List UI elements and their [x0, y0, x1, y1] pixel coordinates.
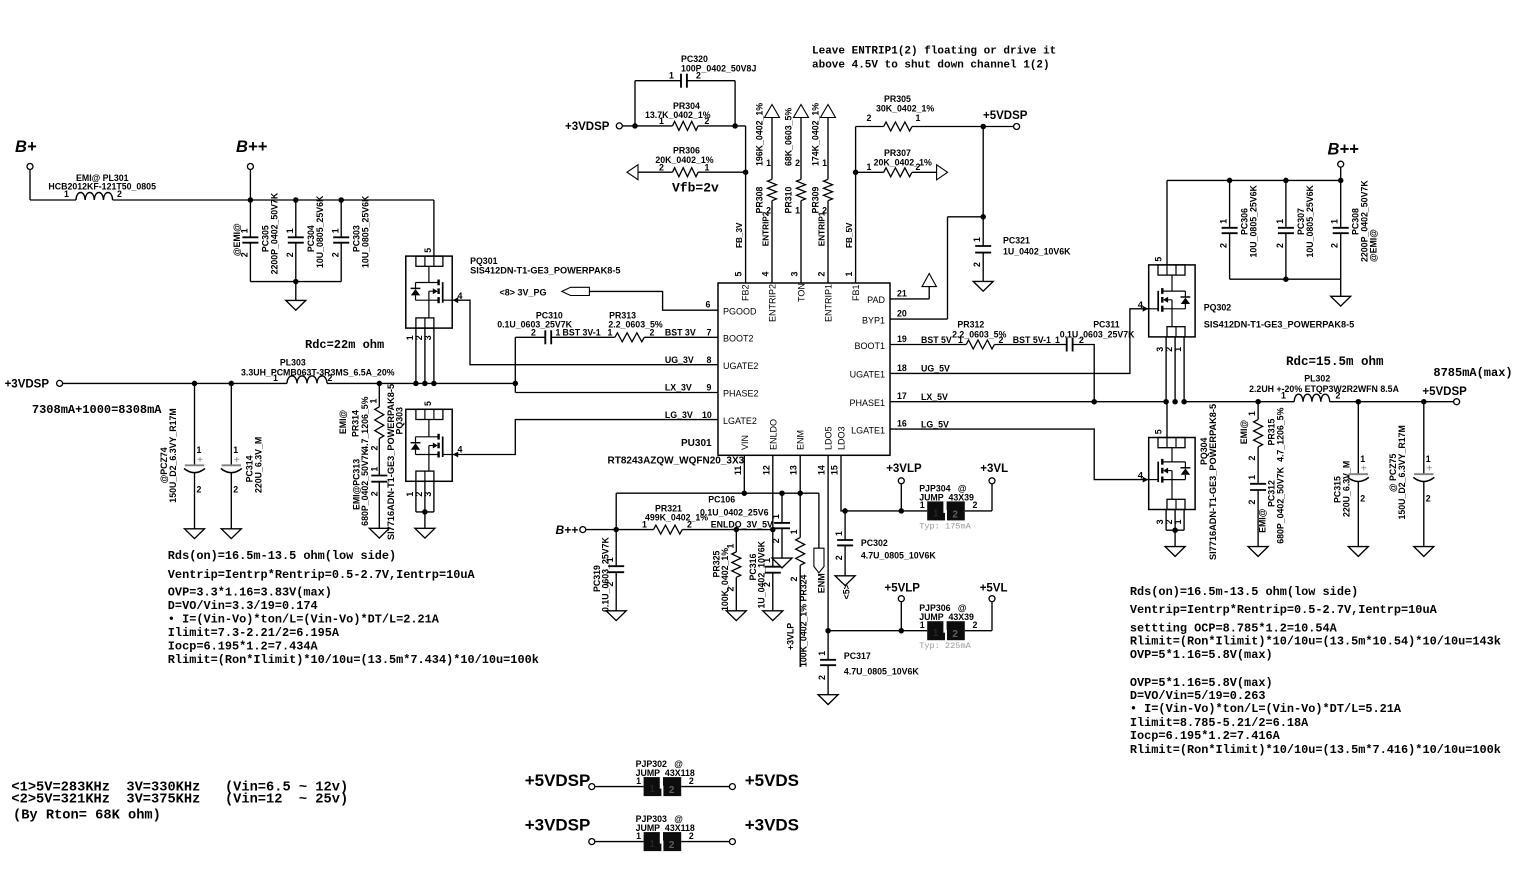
svg-text:680P_0402_50V7K: 680P_0402_50V7K	[360, 448, 370, 525]
svg-text:PGOOD: PGOOD	[723, 307, 757, 317]
wire LG_3V	[452, 420, 718, 455]
svg-text:12: 12	[761, 465, 771, 475]
svg-text:2: 2	[330, 252, 340, 257]
svg-text:+3VDSP: +3VDSP	[565, 121, 610, 133]
svg-text:2: 2	[1330, 243, 1340, 248]
capacitor PC319	[615, 530, 617, 567]
svg-text:2: 2	[696, 70, 701, 80]
wire bottom rail	[1230, 278, 1341, 280]
svg-text:LGATE1: LGATE1	[851, 425, 885, 435]
svg-text:2: 2	[669, 785, 675, 796]
svg-text:4: 4	[761, 272, 771, 277]
svg-text:4: 4	[458, 445, 463, 455]
svg-text:1U_0402_10V6K: 1U_0402_10V6K	[1003, 247, 1071, 257]
svg-text:2: 2	[369, 446, 379, 451]
wire PAD / arrow	[890, 298, 929, 300]
capacitor PC316	[772, 530, 774, 567]
svg-text:Ventrip=Ientrp*Rentrip=0.5-2.7: Ventrip=Ientrp*Rentrip=0.5-2.7V,Ientrp=1…	[1130, 603, 1438, 617]
svg-text:2: 2	[817, 675, 827, 680]
svg-text:1: 1	[725, 544, 735, 549]
svg-text:2: 2	[705, 116, 710, 126]
svg-text:ENTRIP1: ENTRIP1	[818, 211, 827, 246]
wire LX rail right	[1184, 401, 1294, 403]
svg-text:ENM: ENM	[796, 430, 806, 450]
svg-text:499K_0402_1%: 499K_0402_1%	[645, 513, 708, 523]
svg-text:1: 1	[649, 839, 655, 850]
svg-text:RT8243AZQW_WQFN20_3X3: RT8243AZQW_WQFN20_3X3	[608, 456, 745, 467]
svg-text:<8> 3V_PG: <8> 3V_PG	[500, 287, 547, 297]
svg-text:2: 2	[369, 491, 379, 496]
svg-text:PC321: PC321	[1003, 236, 1030, 246]
svg-text:+5VDSP: +5VDSP	[1422, 386, 1467, 398]
svg-text:Rds(on)=16.5m-13.5 ohm(low sid: Rds(on)=16.5m-13.5 ohm(low side)	[168, 549, 396, 563]
svg-text:B++: B++	[236, 138, 268, 156]
svg-text:1: 1	[933, 508, 939, 519]
svg-text:4.7_1206_5%: 4.7_1206_5%	[1276, 407, 1286, 461]
svg-text:PC106: PC106	[708, 495, 735, 505]
wire LX_3V	[515, 392, 718, 394]
svg-text:BOOT2: BOOT2	[723, 334, 754, 344]
svg-text:LDO5: LDO5	[824, 426, 834, 450]
svg-text:2: 2	[1219, 243, 1229, 248]
capacitor PC314	[229, 381, 235, 387]
svg-text:JUMP 43X118: JUMP 43X118	[636, 768, 695, 778]
wire	[63, 382, 287, 384]
capacitor PCZ75	[1421, 399, 1427, 405]
svg-text:15: 15	[830, 465, 840, 475]
svg-text:20K_0402_1%: 20K_0402_1%	[874, 157, 932, 167]
resistor PR307	[856, 171, 884, 173]
svg-text:BST 3V-1: BST 3V-1	[563, 328, 601, 338]
wire	[623, 125, 673, 127]
svg-text:OVP=3.3*1.16=3.83V(max): OVP=3.3*1.16=3.83V(max)	[168, 586, 332, 600]
svg-text:68K_0603_5%: 68K_0603_5%	[784, 108, 794, 166]
svg-text:10U_0805_25V6K: 10U_0805_25V6K	[360, 195, 370, 268]
wire LDO3 pin 15 / +3VLP line	[841, 455, 927, 511]
svg-text:1: 1	[933, 628, 939, 639]
svg-text:1: 1	[795, 206, 800, 216]
resistor PR306	[627, 165, 638, 180]
svg-text:4: 4	[1138, 300, 1144, 311]
svg-text:above 4.5V to shut down channe: above 4.5V to shut down channel 1(2)	[812, 60, 1050, 72]
svg-text:1: 1	[659, 116, 664, 126]
transistor PQ301	[406, 256, 452, 328]
svg-text:2.2UH +-20% ETQP3W2R2WFN 8.5A: 2.2UH +-20% ETQP3W2R2WFN 8.5A	[1249, 384, 1399, 394]
svg-text:0.1U_0603_25V7K: 0.1U_0603_25V7K	[601, 537, 611, 612]
svg-text:2: 2	[1079, 335, 1084, 345]
capacitor PC308	[1340, 180, 1342, 227]
svg-text:D=VO/Vin=3.3/19=0.174: D=VO/Vin=3.3/19=0.174	[168, 599, 318, 613]
wire	[595, 841, 643, 843]
svg-text:2: 2	[1336, 391, 1341, 401]
svg-text:4.7U_0805_10V6K: 4.7U_0805_10V6K	[844, 667, 919, 677]
svg-text:1: 1	[705, 162, 710, 172]
wire	[1165, 510, 1167, 531]
wire LG_5V	[890, 429, 1149, 480]
resistor PR309 / pin ENTRIP1 riser	[821, 105, 836, 118]
svg-text:1: 1	[822, 158, 827, 168]
svg-text:100P_0402_50V8J: 100P_0402_50V8J	[681, 64, 756, 74]
svg-text:SIS412DN-T1-GE3_POWERPAK8-5: SIS412DN-T1-GE3_POWERPAK8-5	[1204, 320, 1354, 330]
ground	[973, 281, 993, 291]
ground net 5	[835, 576, 855, 586]
capacitor PC302	[844, 511, 846, 540]
capacitor PC306	[1229, 180, 1231, 227]
svg-text:PL302: PL302	[1304, 374, 1330, 384]
svg-text:Rlimit=(Ron*Ilimit)*10/10u=(13: Rlimit=(Ron*Ilimit)*10/10u=(13.5m*7.434)…	[168, 653, 539, 667]
svg-text:<2>5V=321KHz 3V=375KHz (Vin: <2>5V=321KHz 3V=375KHz (Vin=12 ~ 25v)	[11, 793, 348, 808]
svg-text:2: 2	[117, 189, 122, 199]
svg-text:2: 2	[233, 485, 238, 495]
ground	[295, 282, 297, 301]
wire	[965, 630, 992, 632]
svg-text:1: 1	[197, 445, 202, 455]
svg-text:+3VLP: +3VLP	[786, 623, 796, 650]
svg-text:PQ302: PQ302	[1204, 303, 1231, 313]
svg-text:2: 2	[197, 485, 202, 495]
inductor PL303	[287, 376, 327, 383]
wire FB_5V vertical	[855, 127, 857, 284]
wire BOOT1	[890, 344, 966, 346]
svg-text:JUMP 43X118: JUMP 43X118	[636, 823, 695, 833]
wire	[415, 328, 417, 383]
svg-text:1: 1	[608, 328, 613, 338]
capacitor PC313	[378, 439, 380, 476]
jumper PJP306	[927, 621, 945, 640]
svg-text:B+: B+	[15, 138, 37, 156]
resistor PR321	[654, 525, 683, 534]
svg-text:2200P_0402_50V7K: 2200P_0402_50V7K	[270, 192, 280, 274]
wire	[994, 344, 1066, 346]
svg-text:1U_0402_10V6K: 1U_0402_10V6K	[757, 540, 767, 608]
svg-text:LG_5V: LG_5V	[921, 419, 949, 429]
svg-text:1: 1	[834, 531, 844, 536]
capacitor PC304	[293, 197, 299, 203]
svg-text:+3VDS: +3VDS	[745, 816, 799, 835]
wire to ENM flag	[744, 492, 819, 494]
svg-text:2: 2	[999, 335, 1004, 345]
ground	[1348, 547, 1368, 557]
svg-text:UG_3V: UG_3V	[665, 355, 694, 365]
node ENM flag	[818, 493, 820, 548]
ground	[185, 529, 205, 539]
svg-text:2: 2	[531, 328, 536, 338]
svg-text:1: 1	[844, 272, 854, 277]
svg-text:1: 1	[556, 328, 561, 338]
svg-text:7308mA+1000=8308mA: 7308mA+1000=8308mA	[32, 403, 162, 417]
wire	[249, 170, 251, 200]
svg-text:SIS412DN-T1-GE3_POWERPAK8-5: SIS412DN-T1-GE3_POWERPAK8-5	[470, 266, 620, 276]
svg-text:BYP1: BYP1	[862, 315, 885, 325]
svg-text:16: 16	[897, 419, 907, 429]
wire	[965, 510, 992, 512]
svg-text:8785mA(max): 8785mA(max)	[1433, 366, 1512, 380]
svg-text:2: 2	[687, 520, 692, 530]
svg-text:+5VLP: +5VLP	[885, 583, 921, 595]
capacitor PCZ74	[192, 381, 198, 387]
svg-text:17: 17	[897, 391, 907, 401]
capacitor PC310	[544, 330, 546, 344]
capacitor PC317	[827, 631, 829, 660]
svg-text:10U_0805_25V6K: 10U_0805_25V6K	[1305, 184, 1315, 257]
svg-text:1: 1	[669, 70, 674, 80]
svg-text:+: +	[1426, 463, 1432, 475]
svg-text:1: 1	[1173, 519, 1183, 524]
op-amp U1 IC PU301 RT8243AZQW body	[718, 283, 890, 455]
capacitor PC320	[634, 81, 636, 126]
svg-text:ENLDO: ENLDO	[768, 419, 778, 450]
resistor PR310 / pin TON riser	[794, 105, 809, 118]
wire BOOT2 to phase	[514, 337, 516, 392]
ground	[424, 512, 426, 528]
svg-text:(By Rton= 68K ohm): (By Rton= 68K ohm)	[13, 808, 161, 823]
wire	[250, 281, 341, 283]
svg-text:LX_3V: LX_3V	[665, 382, 692, 392]
wire UG_5V	[890, 309, 1149, 374]
svg-text:PAD: PAD	[867, 295, 885, 305]
svg-text:ENTRIP2: ENTRIP2	[768, 284, 778, 322]
svg-text:2: 2	[972, 262, 982, 267]
ground	[221, 529, 241, 539]
svg-text:1: 1	[233, 445, 238, 455]
svg-text:4.7U_0805_10V6K: 4.7U_0805_10V6K	[861, 550, 936, 560]
capacitor PC315	[1356, 399, 1362, 405]
svg-text:FB_5V: FB_5V	[845, 222, 854, 248]
svg-text:@EMI@: @EMI@	[1369, 229, 1379, 262]
svg-text:PC317: PC317	[844, 651, 871, 661]
wire VIN	[616, 455, 744, 493]
transistor PQ304	[1166, 402, 1168, 438]
svg-text:2: 2	[328, 373, 333, 383]
svg-text:Ilimit=8.785-5.21/2=6.18A: Ilimit=8.785-5.21/2=6.18A	[1130, 716, 1309, 730]
transistor PQ302	[1149, 265, 1195, 337]
resistor PR313	[615, 333, 644, 342]
svg-text:Ventrip=Ientrp*Rentrip=0.5-2.7: Ventrip=Ientrp*Rentrip=0.5-2.7V,Ientrp=1…	[168, 568, 476, 582]
svg-text:B++: B++	[1328, 141, 1360, 159]
inductor PL301	[76, 192, 113, 200]
svg-text:LG_3V: LG_3V	[665, 410, 693, 420]
svg-text:BST 5V: BST 5V	[921, 335, 952, 345]
svg-text:1: 1	[642, 520, 647, 530]
svg-text:ENLDO_3V_5V: ENLDO_3V_5V	[711, 520, 773, 530]
svg-text:Vfb=2v: Vfb=2v	[672, 181, 719, 196]
ground	[818, 695, 838, 705]
svg-text:Rdc=15.5m ohm: Rdc=15.5m ohm	[1286, 355, 1384, 369]
capacitor PC312	[1257, 447, 1259, 484]
ground	[1248, 547, 1268, 557]
svg-text:2: 2	[1426, 494, 1431, 504]
svg-text:196K_0402_1%: 196K_0402_1%	[755, 103, 765, 166]
svg-text:1: 1	[273, 373, 278, 383]
svg-text:3: 3	[790, 272, 800, 277]
svg-text:PQ301: PQ301	[470, 256, 497, 266]
svg-text:2: 2	[834, 555, 844, 560]
wire	[681, 786, 729, 788]
svg-text:Leave ENTRIP1(2) floating or d: Leave ENTRIP1(2) floating or drive it	[812, 46, 1056, 58]
wire	[327, 382, 515, 384]
capacitor PC305	[249, 200, 251, 237]
svg-text:PC302: PC302	[861, 538, 888, 548]
ground	[1174, 530, 1176, 546]
svg-text:10U_0805_25V6K: 10U_0805_25V6K	[315, 195, 325, 268]
svg-text:+3VDSP: +3VDSP	[5, 379, 50, 391]
svg-text:+5VL: +5VL	[980, 583, 1008, 595]
svg-text:1: 1	[1426, 454, 1431, 464]
svg-text:10: 10	[702, 410, 712, 420]
svg-text:174K_0402_1%: 174K_0402_1%	[811, 103, 821, 166]
ground	[606, 611, 626, 621]
wire	[415, 481, 417, 512]
resistor PR308 / pin ENTRIP2 riser	[765, 105, 780, 118]
svg-text:2: 2	[771, 538, 781, 543]
svg-text:1: 1	[1219, 219, 1229, 224]
svg-text:PR308: PR308	[755, 186, 765, 213]
capacitor PC311	[1066, 338, 1068, 352]
wire PGOOD	[589, 291, 718, 310]
svg-text:+: +	[234, 454, 240, 466]
wire	[595, 786, 643, 788]
svg-text:UGATE1: UGATE1	[850, 370, 885, 380]
svg-text:4: 4	[1138, 471, 1144, 482]
capacitor PC106	[781, 493, 783, 523]
svg-text:1: 1	[1281, 391, 1286, 401]
ground	[369, 528, 389, 538]
resistor PR304	[673, 121, 699, 130]
svg-text:JUMP 43X39: JUMP 43X39	[919, 492, 974, 502]
svg-text:PHASE1: PHASE1	[849, 398, 885, 408]
wire ENLDO net	[586, 529, 653, 531]
svg-text:1: 1	[867, 162, 872, 172]
svg-text:D=VO/Vin=5/19=0.263: D=VO/Vin=5/19=0.263	[1130, 689, 1266, 703]
wire	[644, 336, 718, 338]
svg-text:6: 6	[706, 300, 711, 310]
svg-text:220U_6.3V_M: 220U_6.3V_M	[1342, 461, 1352, 517]
wire	[113, 199, 434, 201]
svg-text:+: +	[197, 454, 203, 466]
svg-text:UG_5V: UG_5V	[921, 364, 950, 374]
wire	[551, 336, 615, 338]
svg-text:7: 7	[707, 328, 712, 338]
svg-text:+5VDSP: +5VDSP	[525, 771, 591, 790]
svg-text:1: 1	[789, 529, 799, 534]
svg-text:PU301: PU301	[681, 438, 712, 449]
svg-text:21: 21	[897, 288, 907, 298]
ground	[772, 558, 792, 568]
svg-text:+5VDS: +5VDS	[745, 771, 799, 790]
wire	[1165, 337, 1167, 402]
svg-text:OVP=5*1.16=5.8V(max): OVP=5*1.16=5.8V(max)	[1130, 648, 1273, 662]
wire FB_3V vertical	[745, 126, 747, 283]
svg-text:14: 14	[817, 465, 827, 475]
svg-text:PL303: PL303	[280, 358, 306, 368]
svg-text:Ilimit=7.3-2.21/2=6.195A: Ilimit=7.3-2.21/2=6.195A	[168, 626, 340, 640]
svg-text:5: 5	[1154, 429, 1164, 434]
svg-text:1: 1	[1360, 454, 1365, 464]
svg-text:2: 2	[952, 629, 958, 640]
svg-text:1: 1	[1173, 347, 1183, 352]
svg-text:30K_0402_1%: 30K_0402_1%	[876, 103, 934, 113]
svg-text:8: 8	[707, 355, 712, 365]
svg-text:1: 1	[1247, 411, 1257, 416]
svg-text:1: 1	[649, 784, 655, 795]
svg-text:EMI@: EMI@	[338, 409, 348, 434]
svg-text:2: 2	[1275, 243, 1285, 248]
wire BYP1	[948, 216, 984, 218]
svg-text:5: 5	[423, 401, 433, 406]
svg-text:1: 1	[1275, 219, 1285, 224]
svg-text:150U_D2_6.3VY_R17M: 150U_D2_6.3VY_R17M	[1397, 425, 1407, 519]
svg-text:11: 11	[733, 466, 743, 475]
svg-text:1: 1	[817, 651, 827, 656]
svg-text:FB_3V: FB_3V	[735, 222, 744, 248]
jumper PJP303	[644, 832, 662, 851]
ground	[1340, 279, 1342, 296]
svg-text:PHASE2: PHASE2	[723, 388, 759, 398]
svg-text:3.3UH_PCMB063T-3R3MS_6.5A_20%: 3.3UH_PCMB063T-3R3MS_6.5A_20%	[241, 368, 395, 378]
svg-text:Iocp=6.195*1.2=7.416A: Iocp=6.195*1.2=7.416A	[1130, 729, 1281, 743]
svg-text:0.1U_0402_25V6: 0.1U_0402_25V6	[700, 507, 769, 517]
svg-text:2: 2	[650, 328, 655, 338]
svg-text:1: 1	[1247, 475, 1257, 480]
svg-text:PR312: PR312	[957, 320, 984, 330]
svg-text:ENM: ENM	[817, 573, 827, 593]
svg-text:220U_6.3V_M: 220U_6.3V_M	[254, 437, 264, 493]
svg-text:SI7716ADN-T1-GE3_POWERPAK8-5: SI7716ADN-T1-GE3_POWERPAK8-5	[386, 384, 396, 540]
svg-text:Typ: 225mA: Typ: 225mA	[919, 641, 971, 651]
svg-text:ENTRIP2: ENTRIP2	[762, 211, 771, 246]
svg-text:5: 5	[1154, 257, 1164, 262]
wire top rail	[1167, 179, 1341, 181]
svg-text:BOOT1: BOOT1	[854, 341, 885, 351]
svg-text:VIN: VIN	[740, 435, 750, 450]
svg-text:EMI@: EMI@	[1239, 420, 1249, 445]
wire	[433, 200, 435, 256]
wire LDO5 pin 14	[827, 455, 829, 630]
svg-text:+3VDSP: +3VDSP	[525, 816, 591, 835]
wire BST 3V	[515, 336, 545, 338]
svg-text:+: +	[1361, 463, 1367, 475]
svg-text:1: 1	[1330, 219, 1340, 224]
svg-text:Typ: 175mA: Typ: 175mA	[919, 521, 971, 531]
svg-text:2: 2	[1247, 500, 1257, 505]
wire LX_5V	[890, 401, 1166, 403]
ground	[1414, 547, 1434, 557]
svg-text:5: 5	[423, 248, 433, 253]
svg-text:PR309: PR309	[811, 186, 821, 213]
svg-text:2: 2	[1247, 456, 1257, 461]
svg-text:1: 1	[285, 228, 295, 233]
svg-text:LX_5V: LX_5V	[921, 392, 948, 402]
svg-text:Rlimit=(Ron*Ilimit)*10/10u=(13: Rlimit=(Ron*Ilimit)*10/10u=(13.5m*7.416)…	[1130, 743, 1501, 757]
svg-text:UGATE2: UGATE2	[723, 361, 758, 371]
jumper PJP302	[644, 777, 662, 796]
svg-text:2: 2	[659, 162, 664, 172]
wire ENLDO pin	[772, 455, 774, 529]
svg-text:Rds(on)=16.5m-13.5 ohm(low sid: Rds(on)=16.5m-13.5 ohm(low side)	[1130, 585, 1358, 599]
capacitor PC321	[982, 127, 984, 247]
svg-text:2: 2	[916, 162, 921, 172]
svg-text:PR310: PR310	[784, 186, 794, 213]
svg-text:FB1: FB1	[851, 284, 861, 301]
resistor PR314	[377, 381, 383, 387]
svg-text:2: 2	[285, 252, 295, 257]
svg-text:4: 4	[458, 291, 463, 301]
svg-text:2: 2	[1360, 494, 1365, 504]
svg-text:100K_0402_1% PR324: 100K_0402_1% PR324	[799, 574, 809, 667]
wire	[29, 170, 31, 200]
svg-text:EMI@: EMI@	[1258, 508, 1268, 533]
svg-text:<5>: <5>	[842, 584, 852, 599]
